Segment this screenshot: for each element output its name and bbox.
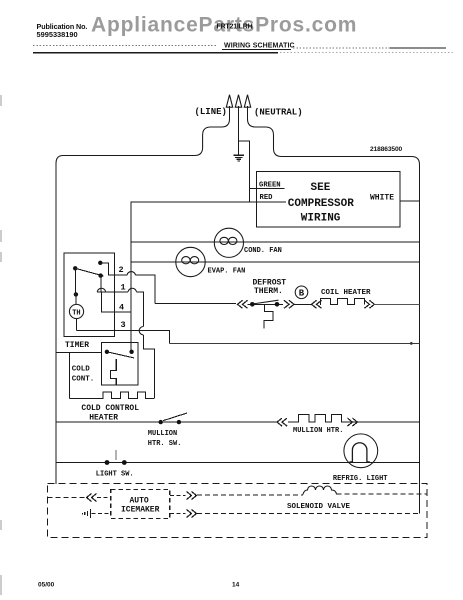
plug prong arrow NEUTRAL <box>244 95 250 119</box>
cold control heater enclosure left edge <box>69 353 71 399</box>
water valve buzzer symbol <box>83 509 91 518</box>
thermal TH circle <box>69 304 83 318</box>
circled letter B <box>295 286 308 299</box>
svg-text:TH: TH <box>72 309 80 317</box>
svg-text:14: 14 <box>232 582 240 589</box>
connector chevrons after coil heater <box>364 300 374 308</box>
cold control box <box>102 343 139 386</box>
wire evap fan row <box>131 261 420 263</box>
cold control contact left <box>105 350 109 354</box>
dashed wire buzzer to icemaker <box>92 513 111 515</box>
icemaker out bottom dashed wire <box>170 513 186 515</box>
svg-text:218863500: 218863500 <box>370 146 403 153</box>
connector bump terminal 1 right <box>128 288 137 292</box>
header rule dotted left <box>33 45 218 47</box>
connector chevrons icemaker top <box>187 492 197 500</box>
svg-text:LIGHT SW.: LIGHT SW. <box>96 471 134 479</box>
wire coil heater to right bus <box>374 303 419 305</box>
svg-text:HTR. SW.: HTR. SW. <box>148 440 182 448</box>
svg-text:(NEUTRAL): (NEUTRAL) <box>254 108 303 118</box>
connector bump terminal 2 <box>127 272 136 276</box>
svg-text:COIL HEATER: COIL HEATER <box>321 289 371 297</box>
svg-text:COLD: COLD <box>72 366 91 374</box>
connector chevrons before mullion heater <box>277 418 287 426</box>
connector chevrons icemaker bottom <box>187 510 197 518</box>
defrost thermostat contacts <box>248 303 284 305</box>
svg-text:EVAP. FAN: EVAP. FAN <box>208 268 246 276</box>
label COLD CONTROL HEATER <box>81 404 139 423</box>
connector bump terminal 1 left <box>97 288 106 292</box>
timer contact dot A <box>98 261 102 265</box>
solenoid valve coil <box>303 486 337 495</box>
wire terminal 2 to defrost row <box>155 303 236 305</box>
connector chevrons before defrost therm <box>238 300 248 308</box>
plug prong arrow GROUND <box>235 95 241 141</box>
svg-text:SEE: SEE <box>311 182 331 194</box>
svg-text:GREEN: GREEN <box>259 182 281 190</box>
wire terminal 4 <box>101 292 130 312</box>
connector chevrons after mullion heater <box>347 418 357 426</box>
label MULLION HTR. SW. <box>148 430 182 448</box>
svg-text:HEATER: HEATER <box>89 414 118 423</box>
connector bump terminal 3 on vertical <box>139 327 143 335</box>
plug prong arrow LINE <box>226 95 232 119</box>
wire ground step to green <box>239 141 250 202</box>
header rule dotted right <box>293 47 390 49</box>
svg-text:4: 4 <box>119 303 124 313</box>
svg-text:05/00: 05/00 <box>38 582 55 589</box>
wire red from compressor to main vertical <box>131 202 286 352</box>
wire green into compressor <box>250 187 285 189</box>
wire terminal 3 vertical to cold control enclosure <box>143 335 154 398</box>
header rule faint dotted <box>280 52 455 54</box>
wire mullion row from left bus <box>56 421 277 423</box>
svg-text:SOLENOID VALVE: SOLENOID VALVE <box>287 503 351 511</box>
svg-text:FRT21ILRH: FRT21ILRH <box>217 24 253 31</box>
svg-text:5995338190: 5995338190 <box>37 30 78 39</box>
timer wire D to TH <box>75 294 77 304</box>
wire cond fan row <box>131 241 420 243</box>
svg-text:RED: RED <box>260 194 274 202</box>
mullion heater switch contacts <box>159 420 163 424</box>
mullion heater resistor <box>288 414 356 422</box>
dashed wire into icemaker <box>97 497 111 499</box>
label AUTO ICEMAKER <box>121 497 160 515</box>
svg-text:TIMER: TIMER <box>65 341 89 350</box>
timer box <box>64 253 114 337</box>
wire contact C down <box>100 276 102 292</box>
junction dot near right bus <box>410 342 413 345</box>
svg-text:B: B <box>299 289 305 299</box>
wire cold control feed from left bus <box>56 352 102 354</box>
auto icemaker dashed box <box>111 490 170 519</box>
svg-text:MULLION: MULLION <box>148 430 177 438</box>
svg-text:2: 2 <box>119 265 124 275</box>
cold control bellows meander <box>111 359 117 385</box>
icemaker out top dashed wire <box>170 495 186 497</box>
timer contact dot B <box>73 266 77 270</box>
timer contact dot C <box>98 273 102 277</box>
light switch contacts <box>105 460 110 465</box>
svg-text:WHITE: WHITE <box>370 194 394 203</box>
cold control heater resistor along bottom <box>70 392 155 399</box>
wire to coil heater <box>294 303 312 305</box>
svg-text:REFRIG. LIGHT: REFRIG. LIGHT <box>333 475 388 483</box>
icemaker feed dashed wire <box>48 497 87 499</box>
dashed wire to solenoid <box>197 494 303 496</box>
dashed wire solenoid to right edge <box>337 493 428 495</box>
cond fan motor M1 <box>214 228 243 257</box>
label SEE COMPRESSOR WIRING <box>288 182 354 225</box>
connector chevrons icemaker feed <box>87 494 97 502</box>
timer wire B to D <box>75 268 77 294</box>
evap fan motor M2 <box>176 247 205 276</box>
wire white from compressor to right bus <box>400 200 420 202</box>
wire TH to neutral step <box>77 319 170 344</box>
header: publication number text <box>37 22 88 39</box>
wire right bus vertical <box>419 165 421 514</box>
svg-text:COLD CONTROL: COLD CONTROL <box>81 404 139 413</box>
wire left bus vertical <box>55 164 57 485</box>
svg-text:THERM.: THERM. <box>254 287 283 296</box>
wire mullion to right bus <box>357 421 419 423</box>
mullion switch arm <box>163 413 187 421</box>
wire terminal 2 from contact A <box>100 263 155 304</box>
svg-text:WIRING SCHEMATIC: WIRING SCHEMATIC <box>224 43 295 50</box>
wire line-side from plug to left bus <box>56 119 230 164</box>
title underline <box>222 49 291 51</box>
wire terminal 1 <box>97 292 143 327</box>
cold control contact right <box>129 350 133 354</box>
header rule solid right <box>390 47 446 49</box>
cold control switch arm <box>107 352 134 358</box>
defrost heater staircase <box>264 304 273 328</box>
evap fan coil loops <box>182 257 190 264</box>
svg-text:AUTO: AUTO <box>130 497 149 506</box>
scan edge marks <box>0 95 2 595</box>
connector chevrons after defrost therm <box>284 300 294 308</box>
label COLD CONT. <box>72 366 95 384</box>
dashed wire bottom to right bus <box>197 513 420 515</box>
bulb filament <box>350 443 370 462</box>
svg-text:COND. FAN: COND. FAN <box>244 247 282 255</box>
timer contact dot D <box>74 292 78 296</box>
connector chevrons before coil heater <box>312 300 322 308</box>
cond fan coil loops <box>220 237 228 244</box>
svg-text:(LINE): (LINE) <box>195 107 227 117</box>
svg-text:MULLION HTR.: MULLION HTR. <box>293 427 343 435</box>
header rule thick left <box>33 52 278 54</box>
svg-text:ICEMAKER: ICEMAKER <box>121 506 160 515</box>
svg-text:WIRING: WIRING <box>301 213 341 225</box>
defrost thermostat arm <box>252 300 278 304</box>
wire light row from left bus <box>56 462 420 464</box>
icemaker section dashed boundary <box>48 484 428 538</box>
svg-text:COMPRESSOR: COMPRESSOR <box>288 198 354 210</box>
label DEFROST THERM. <box>253 279 287 297</box>
ground symbol <box>234 141 244 161</box>
wire timer neutral run to right bus <box>169 342 419 344</box>
wire neutral-side from plug to right bus <box>248 119 420 165</box>
svg-text:1: 1 <box>121 283 126 293</box>
compressor box U1 <box>257 172 401 228</box>
refrigerator light bulb circle <box>344 434 378 468</box>
light switch plunger <box>115 450 117 460</box>
coil heater resistor <box>320 299 364 305</box>
svg-text:CONT.: CONT. <box>72 376 95 384</box>
svg-text:3: 3 <box>121 320 126 330</box>
timer switch arm B-C <box>75 268 103 276</box>
